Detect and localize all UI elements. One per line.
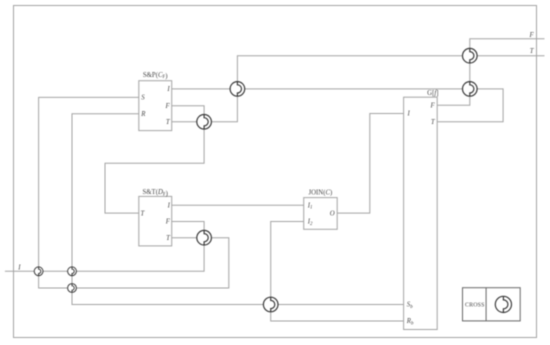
svg-text:S: S: [141, 95, 145, 102]
svg-text:S&T(DF): S&T(DF): [142, 189, 167, 197]
svg-text:CROSS: CROSS: [465, 302, 485, 308]
svg-text:O: O: [330, 210, 335, 217]
svg-text:G[f]: G[f]: [427, 90, 438, 97]
svg-text:F: F: [165, 103, 171, 110]
svg-text:T: T: [530, 48, 535, 55]
svg-text:F: F: [430, 102, 436, 109]
svg-text:JOIN(C): JOIN(C): [308, 189, 332, 196]
svg-text:S&P(CF): S&P(CF): [143, 72, 168, 80]
svg-text:F: F: [165, 219, 171, 226]
svg-text:I: I: [17, 265, 21, 272]
svg-text:R: R: [140, 111, 146, 118]
svg-text:F: F: [529, 32, 535, 39]
